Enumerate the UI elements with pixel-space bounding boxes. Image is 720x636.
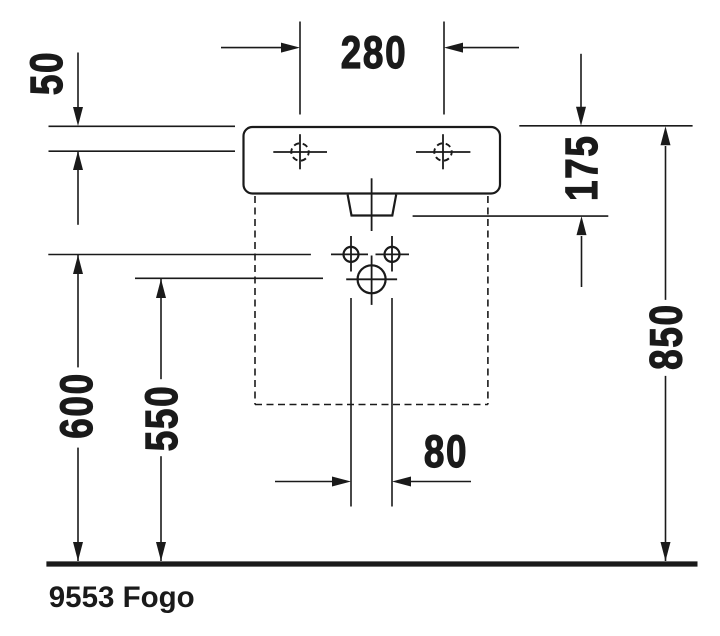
svg-text:80: 80 (424, 427, 468, 477)
dimension 175 upper arrow (576, 54, 586, 126)
dimension 80 right extension line (391, 298, 393, 507)
dimension 550 lower stem and arrow (156, 456, 166, 561)
faucet-axis reference line (49, 150, 236, 152)
dimension 850 lower stem and arrow (661, 376, 671, 561)
floor line (46, 561, 697, 566)
faucet hole right dashed circle (434, 143, 451, 160)
dimension 850 upper arrow and stem (661, 126, 671, 300)
svg-text:175: 175 (556, 135, 606, 201)
small mounting hole left crosshair (331, 236, 368, 272)
dimension 80 right arrow (392, 477, 471, 487)
sink body outline (244, 127, 501, 194)
dimension 600 lower stem and arrow (73, 448, 83, 561)
svg-text:280: 280 (341, 28, 407, 78)
svg-text:600: 600 (52, 372, 102, 438)
dimension 600 upper arrowhead (73, 255, 83, 367)
dimension 50 upper arrow (73, 53, 83, 127)
top reference line right for 175 and 850 (519, 125, 692, 127)
dashed pedestal outline bottom edge (255, 404, 488, 406)
dimension 80 left arrow (275, 477, 351, 487)
faucet hole right crosshair (416, 134, 470, 169)
svg-text:50: 50 (22, 51, 72, 95)
dimension 80 left extension line (350, 298, 352, 507)
dimension 280 right arrow (444, 43, 519, 53)
dimension 280 left arrow (221, 43, 300, 53)
dimension 50 lower arrow / dimension 600 stem upper part (73, 151, 83, 225)
small mounting hole right crosshair (376, 236, 410, 272)
faucet hole left crosshair (273, 134, 327, 169)
175 lower reference line at spout bottom (413, 215, 609, 217)
large drain hole crosshair (346, 256, 397, 305)
faucet hole left dashed circle (291, 143, 308, 160)
svg-text:9553 Fogo: 9553 Fogo (49, 581, 195, 614)
600 reference line at small hole axis (48, 254, 311, 256)
dimension 550 upper arrow and stem (156, 279, 166, 379)
small mounting hole left circle (344, 247, 359, 262)
rim reference line top (49, 125, 236, 127)
dimension 175 lower arrow (577, 216, 587, 287)
dashed pedestal outline right edge (487, 196, 489, 405)
svg-text:550: 550 (137, 385, 187, 451)
550 reference line at drain axis (135, 277, 323, 279)
drain spout trapezoid (348, 195, 397, 216)
dimension 280 left extension line (299, 22, 301, 115)
svg-text:850: 850 (641, 303, 691, 369)
dashed pedestal outline left edge (254, 196, 256, 405)
dimension 280 right extension line (443, 22, 445, 115)
small mounting hole right circle (385, 247, 400, 262)
vertical centerline through spout (371, 178, 373, 231)
large drain hole circle (358, 265, 386, 293)
